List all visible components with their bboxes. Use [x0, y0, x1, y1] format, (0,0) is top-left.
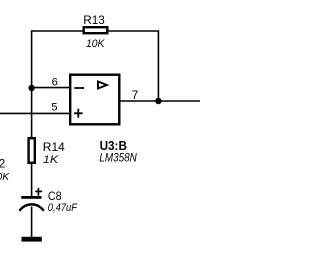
svg-text:R14: R14	[43, 140, 65, 154]
svg-text:10K: 10K	[86, 38, 105, 50]
svg-text:7: 7	[132, 88, 139, 102]
svg-text:0,47uF: 0,47uF	[48, 202, 78, 214]
svg-text:R12: R12	[0, 157, 6, 171]
svg-text:10K: 10K	[0, 171, 10, 183]
svg-text:C8: C8	[48, 189, 62, 203]
svg-text:LM358N: LM358N	[99, 151, 137, 165]
svg-text:5: 5	[51, 102, 57, 114]
svg-text:1K: 1K	[43, 154, 59, 166]
svg-text:6: 6	[52, 77, 58, 89]
svg-text:R13: R13	[83, 13, 105, 27]
